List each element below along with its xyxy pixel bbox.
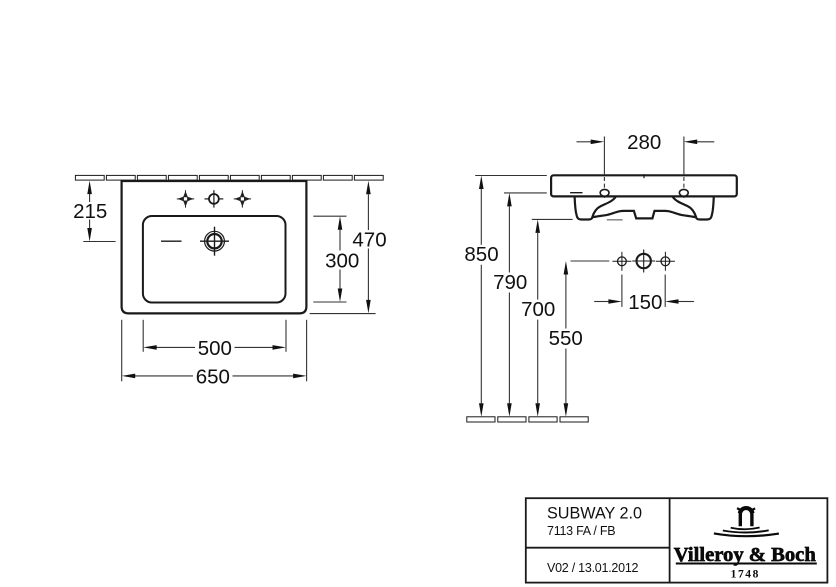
hidden dashed line under web: [607, 219, 623, 221]
fixing hole ellipse left: [600, 189, 609, 196]
extension line 700: [532, 218, 573, 220]
drain crosshair (plan): [200, 227, 229, 256]
fixing cross left (front view): [612, 252, 631, 271]
level dash in slab: [570, 192, 582, 194]
top centre tick: [643, 174, 645, 178]
svg-text:280: 280: [627, 131, 661, 154]
dimension 280: [577, 140, 715, 145]
svg-text:300: 300: [325, 249, 359, 272]
fixing cross right (front view): [656, 252, 675, 271]
title block frame: [526, 498, 828, 582]
svg-text:7113 FA / FB: 7113 FA / FB: [547, 524, 615, 538]
drain circle (front view): [632, 250, 655, 273]
dimension 850: [479, 176, 484, 417]
logo arch icon: [737, 507, 755, 526]
extension line 550: [571, 260, 610, 262]
svg-text:215: 215: [73, 200, 107, 223]
dimension 700: [535, 219, 540, 416]
wall hatch band (tiles): [75, 175, 383, 180]
svg-text:SUBWAY 2.0: SUBWAY 2.0: [547, 505, 642, 523]
dimension 500: [143, 320, 286, 352]
dimension 470: [310, 181, 376, 314]
under-slab left leg outline: [575, 196, 616, 219]
slab outline: [551, 175, 737, 196]
floor hatch (tiles): [467, 417, 588, 422]
under-slab right leg outline: [673, 196, 714, 219]
svg-text:790: 790: [493, 271, 527, 294]
280 extension line right (solid + dashed through slab): [683, 137, 685, 199]
logo ripples: [714, 528, 779, 537]
faucet-hole cross right: [234, 190, 251, 207]
dimension 215: [83, 181, 115, 242]
svg-text:1748: 1748: [731, 569, 760, 581]
faucet-hole circle mark (middle): [205, 190, 224, 207]
extension line 790: [504, 192, 547, 194]
dimension 300: [313, 216, 346, 302]
dimension 790: [507, 193, 512, 417]
dimension 550: [564, 261, 569, 417]
basin outer outline: [122, 181, 307, 313]
faucet-hole cross left: [177, 190, 194, 207]
svg-text:470: 470: [352, 228, 386, 251]
basin inner bowl: [143, 216, 286, 303]
svg-text:V02 / 13.01.2012: V02 / 13.01.2012: [547, 561, 639, 575]
dimension 650: [122, 320, 307, 382]
svg-text:150: 150: [628, 291, 662, 314]
svg-text:850: 850: [464, 243, 498, 266]
280 extension line left (solid + dashed through slab): [603, 137, 605, 199]
svg-text:500: 500: [198, 337, 232, 360]
fixing hole ellipse right: [679, 189, 688, 196]
extension line 850: [475, 175, 547, 177]
dimension 150: [594, 275, 694, 307]
svg-text:700: 700: [521, 298, 555, 321]
svg-text:550: 550: [549, 327, 583, 350]
level dash in bowl: [161, 240, 182, 242]
svg-text:650: 650: [196, 365, 230, 388]
logo underline: [676, 563, 817, 565]
under-slab web bottom profile with drain tab: [592, 211, 697, 219]
